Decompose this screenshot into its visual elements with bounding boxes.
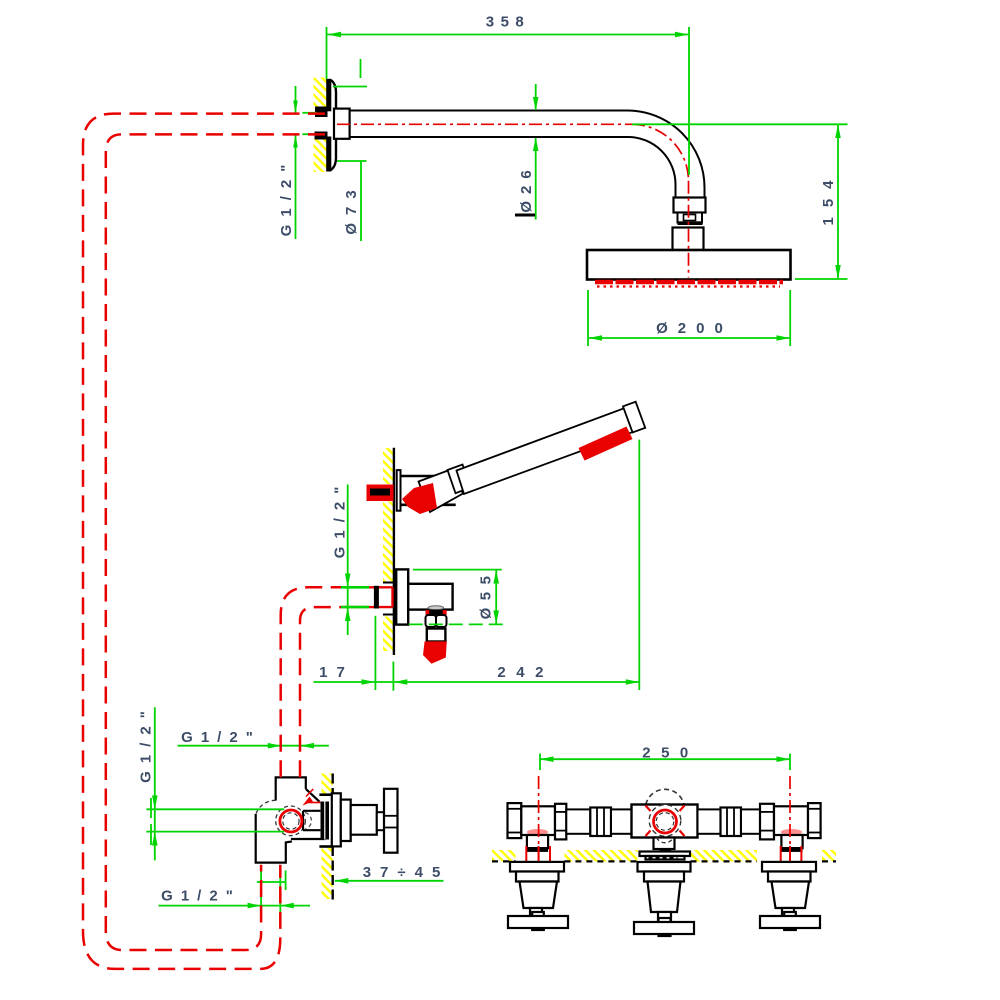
center red ring xyxy=(654,810,677,833)
dim O55 xyxy=(409,570,503,625)
svg-text:Ø73: Ø73 xyxy=(343,182,360,234)
thread block at wall xyxy=(321,802,330,840)
right deck band xyxy=(781,848,802,852)
center neck xyxy=(654,838,675,850)
hand shower wall bracket xyxy=(397,470,401,511)
center ball bottom arc xyxy=(657,838,674,843)
stub green overlays xyxy=(341,587,369,607)
left nut xyxy=(555,804,566,840)
valve stem xyxy=(351,805,377,835)
hand shower collar xyxy=(448,465,471,494)
wall flange plate (black bar) xyxy=(326,79,331,172)
outlet supply stub (red outline) xyxy=(341,587,393,607)
wall line (dashed) xyxy=(332,774,334,900)
outlet flange xyxy=(396,569,408,624)
center deck band xyxy=(660,849,672,852)
hand shower cone xyxy=(419,469,464,512)
svg-text:G1/2": G1/2" xyxy=(278,157,295,237)
dim O200 xyxy=(588,290,790,346)
left end cap xyxy=(508,803,522,838)
svg-text:17: 17 xyxy=(319,664,354,681)
svg-text:G1/2": G1/2" xyxy=(181,729,261,746)
valve red ring xyxy=(280,810,302,832)
bracket arms xyxy=(401,476,456,505)
left deck band xyxy=(527,848,548,852)
wall hatch (yellow) xyxy=(322,774,333,900)
svg-text:37÷45: 37÷45 xyxy=(363,864,450,881)
right tail below deck xyxy=(760,862,820,930)
valve red arrow xyxy=(306,789,320,803)
valve body bulge arcs (gray dashed) xyxy=(256,800,305,835)
svg-text:G1/2": G1/2" xyxy=(332,479,349,559)
right red tails xyxy=(781,846,802,862)
valve neck to wall xyxy=(291,811,326,839)
valve top box xyxy=(276,777,320,801)
right nut xyxy=(760,804,774,840)
left pipe xyxy=(566,809,590,833)
right port arc xyxy=(305,813,311,830)
dim 250 xyxy=(540,754,790,771)
joint black band xyxy=(678,221,703,225)
right T pink seat xyxy=(781,829,802,835)
hand shower inlet stub (red) xyxy=(367,485,394,502)
left tail below deck xyxy=(508,862,568,930)
cross handle (side view) xyxy=(384,789,398,853)
center tail below deck xyxy=(634,852,694,937)
dim G1/2 top-left xyxy=(296,86,317,239)
pipe right of center xyxy=(698,809,721,833)
hand shower grip xyxy=(457,405,643,494)
valve body lower xyxy=(256,814,292,863)
wall nipple black blocks xyxy=(315,107,328,140)
right pipe xyxy=(741,809,760,833)
red spray face xyxy=(402,483,437,514)
escutcheon plate edges through wall xyxy=(319,795,332,847)
outlet body xyxy=(408,584,452,610)
valve-to-outlet pipe outer (dashed) xyxy=(281,587,341,777)
dim O26 leader xyxy=(535,84,537,220)
ball joint body xyxy=(673,228,704,251)
flange rim xyxy=(331,80,336,170)
left neck xyxy=(527,835,548,848)
dim G1/2 (bottom, horizontal) xyxy=(159,869,311,916)
svg-text:Ø55: Ø55 xyxy=(478,569,495,620)
wall hatch (yellow) xyxy=(383,448,394,651)
outlet valve knob xyxy=(426,615,447,627)
outlet knurled nut xyxy=(428,606,444,610)
stem hub xyxy=(377,812,384,830)
center ball dome (dashed) xyxy=(646,789,684,804)
right neck xyxy=(781,835,802,848)
in-wall fitting ticks xyxy=(383,583,394,615)
arm connector box xyxy=(334,109,350,139)
left red tails xyxy=(526,846,550,862)
deck line (black dashed) xyxy=(492,860,836,862)
left coupler xyxy=(590,808,611,837)
center red corner ticks xyxy=(646,806,685,837)
center ball circle (dashed) xyxy=(649,805,681,837)
stub black fitting bar xyxy=(374,586,379,609)
svg-text:G1/2": G1/2" xyxy=(161,888,241,905)
svg-text:G1/2": G1/2" xyxy=(138,703,155,783)
arm nut xyxy=(674,198,706,213)
svg-text:Ø200: Ø200 xyxy=(656,320,733,337)
grip end line xyxy=(623,402,645,433)
svg-text:250: 250 xyxy=(642,745,699,762)
arm adapter xyxy=(678,213,703,223)
shower arm tube xyxy=(350,111,705,198)
wall hatch (yellow) xyxy=(314,78,327,173)
spray face red dashes xyxy=(595,282,783,287)
dim 37-45 xyxy=(335,880,444,882)
dim 358 line xyxy=(327,27,690,175)
dim O73 bracket xyxy=(337,161,367,241)
center tail thread dashes xyxy=(649,857,678,859)
pipe to center xyxy=(611,809,636,833)
valve-to-outlet pipe inner (dashed) xyxy=(300,607,341,777)
small bracket above flange xyxy=(333,59,367,87)
centerline left (red dash-dot) xyxy=(538,776,540,861)
dim G1/2 (vertical, left) xyxy=(146,707,284,860)
svg-text:242: 242 xyxy=(497,664,554,681)
supply loop inner (dashed) xyxy=(106,134,325,950)
red slider on grip xyxy=(579,427,633,461)
left T pink seat xyxy=(527,829,548,835)
deck hatch (yellow) xyxy=(492,850,836,862)
outlet red handle xyxy=(423,641,447,663)
svg-text:Ø26: Ø26 xyxy=(518,163,535,212)
right end cap xyxy=(808,803,821,838)
left T body xyxy=(521,806,555,835)
right T body xyxy=(774,806,808,835)
arm centerline (red dash-dot) xyxy=(337,124,689,277)
svg-text:358: 358 xyxy=(486,14,531,31)
dims 17 / 242 xyxy=(313,440,639,691)
dim G1/2 middle xyxy=(347,485,349,636)
centerline right (red dash-dot) xyxy=(789,776,791,861)
shower head plate xyxy=(587,250,791,280)
supply loop outer (dashed) xyxy=(83,114,325,969)
wall line xyxy=(393,448,395,655)
dim G1/2 (top, horizontal) xyxy=(178,745,329,747)
right coupler xyxy=(721,808,742,837)
dim 154 xyxy=(632,124,848,279)
center T body xyxy=(632,805,698,838)
svg-text:154: 154 xyxy=(820,170,837,225)
escutcheon plate xyxy=(332,793,341,846)
escutcheon ring xyxy=(341,800,351,841)
